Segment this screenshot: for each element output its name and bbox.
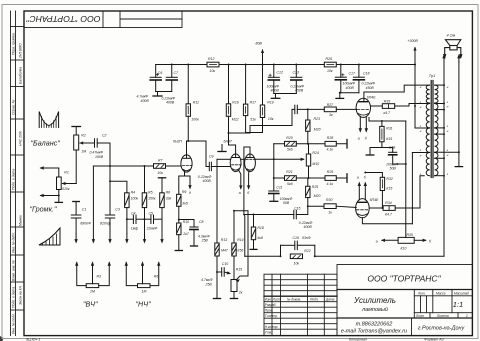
svg-text:Взам. инв. №: Взам. инв. № — [12, 260, 16, 281]
svg-text:C8: C8 — [199, 220, 204, 224]
svg-text:Изм: Изм — [265, 297, 272, 301]
wire V1 cathode to R9 — [179, 171, 185, 194]
svg-text:10к: 10к — [157, 171, 163, 175]
primary winding s2 — [426, 104, 429, 128]
svg-text:К15: К15 — [386, 137, 392, 141]
wire s4 lead to R34 — [420, 176, 424, 208]
svg-text:Подп. и дата: Подп. и дата — [12, 287, 16, 308]
wire R7 to V1 grid — [166, 165, 182, 167]
svg-text:4.1к: 4.1к — [327, 148, 334, 152]
svg-text:680пФ: 680пФ — [80, 221, 91, 225]
svg-text:400В: 400В — [346, 86, 355, 90]
capacitor C1 — [73, 201, 80, 203]
svg-text:Утв.: Утв. — [265, 330, 272, 334]
ground — [275, 94, 277, 99]
junction dots V4 — [364, 172, 383, 210]
capacitor C6 — [155, 65, 157, 78]
resistor R9 — [177, 194, 181, 206]
svg-text:1мф: 1мф — [131, 226, 138, 230]
svg-text:3к: 3к — [329, 113, 333, 117]
svg-text:C2: C2 — [102, 134, 107, 138]
secondary rails — [443, 62, 445, 256]
svg-text:450В: 450В — [366, 86, 375, 90]
svg-text:0.22мкФ: 0.22мкФ — [299, 221, 313, 225]
svg-text:К15: К15 — [386, 187, 392, 191]
tube V4 6П4Е — [356, 199, 370, 218]
svg-text:820пф: 820пф — [100, 221, 111, 225]
svg-text:Зксон на КЧ: Зксон на КЧ — [19, 285, 23, 305]
resistor R14 — [232, 243, 236, 256]
potentiometer R1 — [57, 177, 62, 190]
wire drop to HF pot — [92, 166, 94, 242]
wire bus drop to R11 — [187, 65, 189, 104]
wire bus drop to R16 — [228, 65, 230, 104]
node -80V arrow — [262, 50, 264, 65]
svg-text:Инв. № дубл.: Инв. № дубл. — [12, 232, 16, 253]
svg-text:4.1к: 4.1к — [327, 182, 334, 186]
svg-text:Формат А3: Формат А3 — [424, 338, 444, 341]
svg-text:R18: R18 — [257, 226, 263, 230]
svg-text:C15: C15 — [294, 206, 300, 210]
wire R10 bottom — [178, 235, 180, 251]
capacitor C3 — [109, 143, 111, 215]
svg-text:5к6: 5к6 — [287, 148, 293, 152]
svg-text:Лит.: Лит. — [417, 291, 426, 295]
ground — [369, 148, 371, 155]
svg-text:R12: R12 — [208, 57, 214, 61]
svg-text:R35: R35 — [407, 233, 413, 237]
tube V1 6Н2П — [181, 155, 192, 172]
wire C9 to V2a grid — [211, 166, 230, 168]
potentiometer R15 — [231, 280, 237, 292]
wire R16 to V2a anode — [229, 116, 236, 157]
svg-text:3к5: 3к5 — [182, 201, 188, 205]
resistor R19 — [260, 105, 264, 118]
svg-text:R17: R17 — [250, 100, 257, 104]
svg-text:К10: К10 — [401, 247, 407, 251]
svg-text:C3: C3 — [115, 207, 120, 211]
resistor R7 — [154, 164, 166, 169]
svg-text:"НЧ": "НЧ" — [136, 300, 152, 309]
wire input arrow 2 — [41, 195, 59, 197]
svg-text:2Н5 ВМО: 2Н5 ВМО — [19, 43, 23, 59]
svg-text:C19: C19 — [389, 145, 395, 149]
svg-text:4.7мкФ: 4.7мкФ — [201, 278, 213, 282]
svg-text:R2: R2 — [81, 134, 86, 138]
svg-text:R22: R22 — [304, 249, 310, 253]
junction dots feedback — [280, 255, 316, 257]
wire -80V down to R19 — [262, 65, 264, 106]
svg-text:Листов: Листов — [436, 314, 449, 318]
svg-text:0.22мкФ: 0.22мкФ — [362, 82, 376, 86]
speaker symbol — [450, 46, 457, 50]
labels R13 R14 C10 R15 — [201, 238, 244, 294]
svg-text:400В: 400В — [141, 99, 150, 103]
svg-text:R3: R3 — [97, 275, 102, 279]
svg-text:Перв. примен.: Перв. примен. — [12, 32, 16, 55]
resistor R13 — [215, 243, 219, 256]
svg-text:53нФ: 53нФ — [302, 236, 311, 240]
svg-text:+300В: +300В — [408, 39, 419, 43]
wire bias R17 R19 — [246, 116, 263, 133]
svg-text:2к: 2к — [238, 290, 243, 294]
svg-text:R9: R9 — [182, 190, 187, 194]
svg-text:10к: 10к — [327, 69, 333, 73]
wire R2 wiper to C2 — [80, 142, 95, 144]
primary winding s4 — [426, 153, 429, 176]
svg-text:6П4Е: 6П4Е — [370, 198, 379, 202]
svg-text:150к: 150к — [148, 197, 156, 201]
ground — [221, 145, 223, 152]
wire grid row 2 — [274, 177, 285, 179]
svg-text:22мкФ: 22мкФ — [146, 226, 158, 230]
wire R25 to R30 — [308, 198, 324, 207]
secondary winding s2 — [435, 104, 438, 128]
svg-text:R34: R34 — [385, 201, 391, 205]
top-left rotated stamp — [24, 11, 182, 28]
capacitor C14 — [294, 105, 296, 114]
svg-text:"Громк.": "Громк." — [30, 205, 57, 214]
wire +300V down to CT — [415, 65, 430, 129]
svg-text:9Ц.Юч-1: 9Ц.Юч-1 — [26, 338, 40, 341]
svg-text:C18: C18 — [363, 72, 369, 76]
wire V4 anode — [362, 218, 412, 224]
wire grid line to R24 wiper — [217, 158, 231, 160]
node +300V arrow — [414, 48, 416, 65]
svg-text:ООО "ТОРТРАНС": ООО "ТОРТРАНС" — [367, 274, 441, 284]
svg-text:Т.контр.: Т.контр. — [265, 314, 278, 318]
tube V2a 6Н9Т — [230, 154, 241, 172]
wire cathode node — [370, 147, 393, 149]
svg-text:C4: C4 — [131, 211, 136, 215]
wire V4 top arrows a b — [358, 183, 360, 200]
svg-text:т.8863220662: т.8863220662 — [356, 322, 393, 328]
capacitor C13 — [295, 65, 297, 78]
wire anode to C9 — [188, 141, 206, 167]
labels input — [62, 134, 107, 191]
svg-text:1М: 1М — [90, 289, 95, 293]
svg-text:50В: 50В — [390, 167, 397, 171]
svg-text:4 Ом: 4 Ом — [447, 33, 456, 37]
svg-text:C12: C12 — [277, 71, 283, 75]
transformer core — [430, 81, 432, 178]
svg-text:400В: 400В — [166, 101, 175, 105]
wire signal line — [93, 165, 153, 167]
secondary winding s4 — [435, 153, 438, 176]
junction dots splitter — [253, 108, 310, 215]
svg-text:6к8: 6к8 — [257, 236, 263, 240]
svg-text:R11: R11 — [193, 100, 199, 104]
svg-text:100к: 100к — [131, 197, 139, 201]
resistor R12 — [207, 62, 219, 67]
secondary winding s3 — [435, 128, 438, 152]
svg-text:R24: R24 — [312, 151, 318, 155]
title block — [264, 265, 472, 336]
labels tone pots — [90, 275, 158, 294]
ground — [339, 93, 341, 98]
wire V1 anode to R11 — [186, 155, 188, 158]
svg-text:R25: R25 — [312, 185, 318, 189]
wire R1 bottom — [58, 190, 60, 203]
wire left join column — [273, 144, 275, 178]
resistor R20 — [285, 141, 297, 146]
svg-text:М10: М10 — [312, 162, 319, 166]
svg-text:C5: C5 — [149, 211, 154, 215]
winding terminal labels — [420, 85, 449, 176]
secondary leads — [435, 84, 444, 86]
svg-text:R30: R30 — [326, 198, 332, 202]
wire B+ bus — [156, 64, 207, 66]
svg-text:R10: R10 — [183, 220, 189, 224]
wire wiper arrow into R1 — [63, 183, 77, 185]
svg-text:-80В: -80В — [255, 42, 263, 46]
labels stage1 — [173, 139, 250, 242]
svg-text:R19: R19 — [267, 100, 273, 104]
resistor R31 — [369, 118, 406, 122]
svg-text:C11: C11 — [276, 186, 282, 190]
wire R30 to V4 grid — [336, 206, 356, 207]
junction dots input — [58, 165, 111, 197]
svg-text:25В: 25В — [205, 282, 213, 286]
svg-text:50В: 50В — [283, 201, 290, 205]
svg-text:Тр1: Тр1 — [429, 74, 435, 78]
wire R13 column — [216, 159, 218, 243]
svg-text:R13: R13 — [221, 238, 227, 242]
wire bus right — [336, 64, 415, 66]
svg-text:C17: C17 — [349, 72, 356, 76]
svg-text:R33: R33 — [384, 100, 390, 104]
junction dots on bus — [171, 64, 416, 94]
svg-text:0.22мкФ: 0.22мкФ — [198, 175, 212, 179]
resistor R8 terminal — [158, 177, 165, 179]
svg-text:25В: 25В — [201, 239, 209, 243]
svg-text:C1: C1 — [82, 207, 87, 211]
labels tone — [80, 159, 171, 231]
svg-text:4.7мкФ: 4.7мкФ — [137, 95, 149, 99]
svg-text:100мкФ: 100мкФ — [343, 82, 356, 86]
capacitor C8 — [179, 219, 194, 221]
resistor R18 — [253, 215, 255, 228]
svg-text:R8: R8 — [166, 190, 171, 194]
terminal secondary — [458, 152, 460, 166]
svg-text:6П4Е: 6П4Е — [367, 95, 376, 99]
wire C17-C18 join — [341, 92, 359, 94]
labels splitter — [257, 103, 334, 240]
svg-text:e-mail Tortrans@yandex.ru: e-mail Tortrans@yandex.ru — [341, 329, 407, 335]
svg-text:Мынка: Мынка — [19, 215, 23, 226]
svg-text:10к: 10к — [294, 262, 300, 266]
wire V3 anode up to transformer — [364, 85, 430, 102]
rail bottom common — [245, 255, 281, 257]
svg-text:R4: R4 — [131, 190, 136, 194]
svg-text:Разраб.: Разраб. — [265, 303, 277, 307]
capacitor C2 — [94, 139, 96, 148]
svg-text:Лист: Лист — [272, 297, 282, 301]
svg-text:C13: C13 — [293, 71, 299, 75]
svg-text:Копировал: Копировал — [349, 338, 367, 341]
svg-text:R29: R29 — [327, 170, 333, 174]
svg-text:М22: М22 — [232, 118, 239, 122]
ground — [157, 92, 159, 97]
svg-text:1к: 1к — [328, 211, 332, 215]
wire bus mid — [219, 64, 324, 66]
capacitor C10 — [221, 268, 223, 277]
resistor R34 — [369, 207, 383, 209]
left table columns — [271, 274, 273, 335]
left margin dividers — [11, 26, 25, 28]
labels feedback — [293, 233, 433, 265]
svg-text:400В: 400В — [203, 179, 212, 183]
svg-text:а: а — [358, 137, 360, 141]
svg-text:510к: 510к — [62, 187, 70, 191]
potentiometer R2 — [74, 135, 79, 150]
potentiometer R35 — [398, 237, 414, 243]
svg-text:а: а — [376, 239, 378, 243]
svg-text:1:1: 1:1 — [453, 300, 463, 309]
wire to C14 R27 — [229, 109, 293, 133]
labels top bus — [137, 39, 419, 122]
svg-text:М20: М20 — [314, 194, 321, 198]
labels V3 — [358, 95, 399, 170]
svg-text:6Н2П: 6Н2П — [173, 139, 182, 143]
svg-text:C9: C9 — [209, 154, 214, 158]
wire V2b anode down-left — [244, 147, 250, 215]
svg-text:Усилитель: Усилитель — [353, 296, 396, 305]
svg-text:33к: 33к — [166, 197, 172, 201]
primary winding s1 — [426, 85, 429, 103]
capacitor C12 — [273, 65, 275, 78]
resistor R11 — [186, 104, 190, 117]
svg-text:R20: R20 — [286, 136, 292, 140]
svg-text:Справ. №: Справ. № — [12, 99, 16, 115]
svg-text:Пров.: Пров. — [265, 308, 274, 312]
svg-text:10к: 10к — [268, 117, 274, 121]
svg-text:R16: R16 — [232, 100, 238, 104]
svg-text:Лист: Лист — [415, 314, 425, 318]
wire grid row 1 — [274, 143, 285, 145]
wire R9 to R10 — [178, 206, 180, 223]
svg-text:НЧС 20%: НЧС 20% — [19, 131, 23, 146]
resistor R10 — [177, 223, 181, 235]
resistor R21 — [285, 176, 297, 181]
wire V4 anode riser — [412, 152, 429, 154]
svg-text:а: а — [357, 176, 359, 180]
svg-text:Подп.: Подп. — [310, 297, 319, 301]
capacitor C4 — [132, 215, 134, 224]
capacitor C11 — [273, 178, 275, 191]
svg-text:R1: R1 — [64, 171, 69, 175]
svg-text:6Н9Т: 6Н9Т — [224, 139, 233, 143]
capacitor C5 — [150, 215, 152, 224]
node R2 top terminal — [72, 126, 81, 128]
junction dots V3 — [381, 105, 416, 165]
svg-text:ООО "ТОРТРАНС": ООО "ТОРТРАНС" — [25, 14, 100, 23]
junction dots tone — [109, 165, 146, 220]
tube V2b 6Н9Т — [245, 154, 256, 172]
ground — [270, 200, 278, 202]
svg-text:Инв. № подл.: Инв. № подл. — [12, 313, 16, 334]
svg-text:C16: C16 — [293, 236, 299, 240]
wire R2 bottom drop — [75, 150, 77, 184]
svg-text:Н.контр.: Н.контр. — [265, 325, 279, 329]
resistor R28 — [325, 141, 336, 146]
resistor R33 screen — [371, 105, 383, 107]
labels V4 — [357, 176, 393, 217]
svg-text:1М: 1М — [142, 289, 147, 293]
left margin column lines — [10, 11, 12, 336]
svg-text:400В: 400В — [304, 225, 313, 229]
resistor R23 — [307, 109, 309, 120]
junction dots R13 R14 — [216, 210, 235, 273]
capacitor C7 — [171, 65, 173, 78]
svg-text:1: 1 — [466, 314, 468, 318]
svg-text:400В: 400В — [271, 89, 280, 93]
connector arrows down — [75, 234, 77, 242]
wire V2b cathode arrow b — [248, 171, 250, 188]
svg-text:R6: R6 — [154, 275, 159, 279]
capacitor C15 — [293, 210, 295, 219]
svg-text:а: а — [239, 191, 241, 195]
resistor R32 — [365, 173, 382, 178]
wire R27 to V3 grid — [336, 108, 356, 110]
resistor R25 — [307, 178, 309, 186]
tube V3 6П4Е — [356, 98, 370, 117]
wire R1 top + input arrow — [41, 168, 59, 177]
svg-text:C10: C10 — [222, 262, 228, 266]
resistor R29 — [325, 176, 336, 181]
resistor R5 — [144, 166, 146, 193]
svg-text:ламповый: ламповый — [361, 306, 388, 313]
svg-text:R31: R31 — [386, 126, 392, 130]
svg-text:R23: R23 — [314, 117, 320, 121]
junction dots transformer taps — [443, 84, 460, 177]
potentiometer R3 — [86, 284, 99, 288]
svg-text:100к: 100к — [191, 118, 199, 122]
svg-text:R21: R21 — [286, 170, 292, 174]
svg-text:160В: 160В — [95, 155, 104, 159]
svg-text:"Баланс": "Баланс" — [31, 139, 61, 148]
primary winding s3 — [426, 128, 429, 152]
icon volume ramp — [39, 228, 60, 245]
svg-text:М47: М47 — [221, 248, 229, 252]
capacitor C18 — [358, 65, 360, 78]
svg-text:5к6: 5к6 — [287, 182, 293, 186]
capacitor C16 with R22 parallel — [281, 244, 295, 246]
resistor R26 — [324, 62, 336, 67]
capacitor C9 — [208, 162, 210, 171]
svg-text:R28: R28 — [327, 136, 333, 140]
svg-text:Балаболка: Балаболка — [19, 67, 23, 84]
potentiometer R24 — [306, 154, 310, 166]
resistor R22 — [290, 254, 302, 259]
connector arrow a — [189, 176, 191, 188]
resistor R17 — [243, 104, 247, 116]
resistor R27 — [324, 107, 336, 112]
left margin rotated labels — [12, 32, 23, 334]
wire bus drop to R17 — [245, 65, 247, 105]
wire C4 C5 row — [126, 208, 128, 234]
svg-text:"ВЧ": "ВЧ" — [83, 300, 98, 309]
secondary winding s1 — [435, 85, 438, 103]
svg-text:К56: К56 — [237, 248, 243, 252]
svg-text:R26: R26 — [326, 57, 332, 61]
svg-text:R32: R32 — [386, 177, 392, 181]
svg-text:а: а — [189, 191, 191, 195]
svg-text:1М: 1М — [81, 150, 86, 154]
junction dots stage1 — [178, 132, 230, 221]
svg-text:51к: 51к — [250, 118, 256, 122]
svg-text:Подп. и дата: Подп. и дата — [12, 169, 16, 190]
